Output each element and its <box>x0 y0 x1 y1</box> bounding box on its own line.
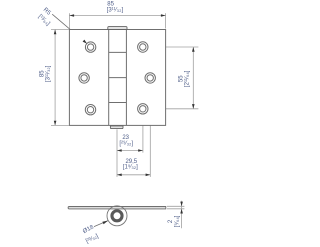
svg-text:[1⁵⁄₃₂]: [1⁵⁄₃₂] <box>123 164 138 171</box>
svg-text:23: 23 <box>122 135 129 141</box>
svg-text:[2¹¹⁄₆₄]: [2¹¹⁄₆₄] <box>185 70 191 87</box>
svg-text:85: 85 <box>39 70 45 77</box>
svg-text:[3¹¹⁄₃₂]: [3¹¹⁄₃₂] <box>46 65 52 82</box>
svg-text:[⁵⁄₆₄]: [⁵⁄₆₄] <box>173 215 180 227</box>
svg-text:[²⁹⁄₃₂]: [²⁹⁄₃₂] <box>119 140 133 147</box>
svg-text:[3¹¹⁄₃₂]: [3¹¹⁄₃₂] <box>107 7 124 13</box>
svg-text:55: 55 <box>178 75 184 82</box>
